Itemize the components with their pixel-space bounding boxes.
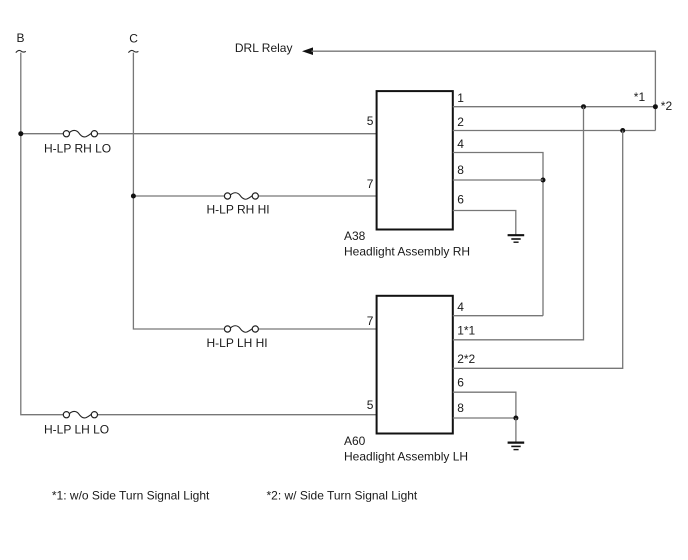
ground A38 — [508, 235, 525, 242]
svg-text:2: 2 — [457, 115, 464, 129]
svg-text:H-LP LH LO: H-LP LH LO — [44, 423, 109, 437]
svg-text:7: 7 — [367, 177, 374, 191]
wire pin2 A60 to pin2 A38 — [453, 131, 623, 369]
connector A60 — [377, 296, 453, 434]
svg-text:6: 6 — [457, 376, 464, 390]
svg-text:8: 8 — [457, 163, 464, 177]
svg-text:B: B — [17, 31, 25, 45]
svg-text:4: 4 — [457, 300, 464, 314]
svg-text:Headlight Assembly RH: Headlight Assembly RH — [344, 245, 470, 259]
junction pin2/*2 branch — [620, 128, 625, 133]
wire pin4 A60 — [453, 315, 543, 317]
svg-text:H-LP RH HI: H-LP RH HI — [207, 203, 270, 217]
wire H-LP RH HI (pin 7 A38) — [133, 195, 224, 197]
fuse H-LP RH HI — [224, 193, 258, 200]
junction pin8 A38 — [541, 178, 546, 183]
wire pin1 A38 — [453, 106, 656, 108]
junction pin6/pin8 A60 — [513, 416, 518, 421]
wire pin8 A60 to ground — [453, 417, 516, 419]
svg-text:8: 8 — [457, 401, 464, 415]
wire B bus — [21, 53, 64, 415]
node C — [128, 32, 138, 53]
svg-text:DRL Relay: DRL Relay — [235, 41, 293, 55]
junction B / H-LP RH LO — [18, 131, 23, 136]
connector A38 — [377, 91, 453, 229]
wire H-LP RH LO (pin 5 A38) — [21, 133, 64, 135]
svg-text:Headlight Assembly LH: Headlight Assembly LH — [344, 449, 468, 463]
svg-text:*2: *2 — [661, 99, 673, 113]
wire to ground A60 — [515, 418, 517, 442]
svg-text:2*2: 2*2 — [457, 352, 475, 366]
wire pin4 A38 to bus — [453, 153, 543, 316]
wire pin1 A60 to pin1 A38 — [453, 107, 584, 340]
svg-text:4: 4 — [457, 137, 464, 151]
wire pin8 A38 — [453, 179, 543, 181]
svg-text:H-LP LH HI: H-LP LH HI — [207, 336, 268, 350]
arrow to DRL Relay — [302, 47, 313, 55]
junction pin1/*1 branch — [581, 104, 586, 109]
wire pin2 A38 — [453, 130, 656, 132]
fuse H-LP RH LO — [63, 130, 97, 137]
svg-text:H-LP RH LO: H-LP RH LO — [44, 142, 111, 156]
node B — [16, 31, 26, 53]
svg-text:1: 1 — [457, 91, 464, 105]
wire DRL relay feed — [312, 51, 656, 130]
svg-text:5: 5 — [367, 398, 374, 412]
svg-text:6: 6 — [457, 193, 464, 207]
junction C / H-LP RH HI — [131, 194, 136, 199]
svg-text:*2: w/ Side Turn Signal Light: *2: w/ Side Turn Signal Light — [267, 489, 418, 503]
fuse H-LP LH HI — [224, 326, 258, 333]
fuse H-LP LH LO (pin 5 A60) — [63, 411, 97, 418]
junction pin1/DRL feed — [653, 104, 658, 109]
ground A60 — [508, 443, 525, 450]
wire pin6 A38 to ground — [453, 211, 516, 235]
svg-text:A60: A60 — [344, 434, 366, 448]
wire pin6 A60 — [453, 392, 516, 418]
svg-text:7: 7 — [367, 314, 374, 328]
svg-text:*1: w/o Side Turn Signal Light: *1: w/o Side Turn Signal Light — [52, 489, 210, 503]
svg-text:A38: A38 — [344, 229, 366, 243]
svg-text:1*1: 1*1 — [457, 324, 475, 338]
svg-text:5: 5 — [367, 114, 374, 128]
wire C bus — [133, 53, 224, 329]
svg-text:*1: *1 — [634, 90, 646, 104]
svg-text:C: C — [129, 32, 138, 46]
